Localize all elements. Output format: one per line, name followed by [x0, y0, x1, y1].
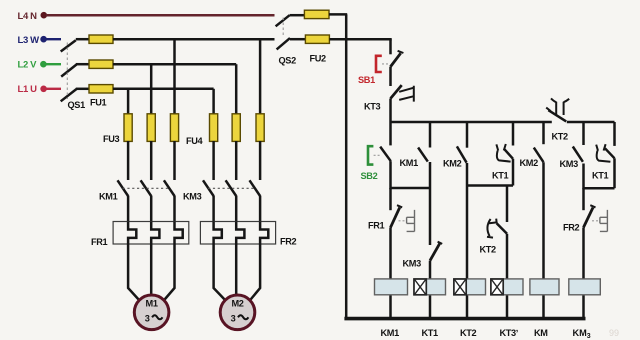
svg-text:3: 3 [231, 314, 236, 324]
svg-text:KM2: KM2 [520, 158, 539, 168]
svg-text:KM1: KM1 [381, 328, 400, 338]
svg-text:FU2: FU2 [310, 54, 327, 64]
svg-text:KT1: KT1 [492, 171, 509, 181]
svg-text:FR2: FR2 [563, 223, 580, 233]
svg-text:KT2: KT2 [460, 328, 477, 338]
svg-text:KT3: KT3 [364, 102, 381, 112]
svg-text:KM1: KM1 [99, 192, 118, 202]
svg-text:SB1: SB1 [358, 75, 375, 85]
svg-text:FU3: FU3 [103, 134, 120, 144]
svg-text:M1: M1 [146, 299, 158, 309]
svg-text:L2 V: L2 V [18, 60, 38, 71]
svg-text:QS2: QS2 [279, 56, 297, 66]
svg-text:KM: KM [534, 328, 548, 338]
svg-text:FU4: FU4 [186, 136, 204, 146]
svg-text:KM3: KM3 [403, 259, 422, 269]
svg-text:FR2: FR2 [280, 237, 297, 247]
svg-text:KT1: KT1 [422, 328, 439, 338]
svg-text:FR1: FR1 [91, 237, 108, 247]
svg-text:FU1: FU1 [90, 98, 107, 108]
svg-text:KM3: KM3 [183, 192, 202, 202]
svg-text:KT2: KT2 [480, 245, 497, 255]
svg-text:99: 99 [609, 328, 619, 338]
svg-text:QS1: QS1 [68, 100, 86, 110]
svg-text:3: 3 [145, 314, 150, 324]
svg-text:KM3: KM3 [560, 159, 579, 169]
svg-text:L3 W: L3 W [18, 35, 40, 46]
svg-text:KM2: KM2 [443, 159, 462, 169]
svg-text:L4 N: L4 N [18, 11, 38, 22]
svg-text:FR1: FR1 [368, 221, 385, 231]
svg-text:M2: M2 [231, 299, 243, 309]
svg-text:L1 U: L1 U [18, 84, 38, 95]
svg-text:KT2: KT2 [552, 132, 569, 142]
svg-text:KM1: KM1 [400, 158, 419, 168]
svg-text:KT1: KT1 [592, 171, 609, 181]
svg-text:SB2: SB2 [361, 171, 378, 181]
svg-text:KT3ʼ: KT3ʼ [500, 328, 519, 338]
